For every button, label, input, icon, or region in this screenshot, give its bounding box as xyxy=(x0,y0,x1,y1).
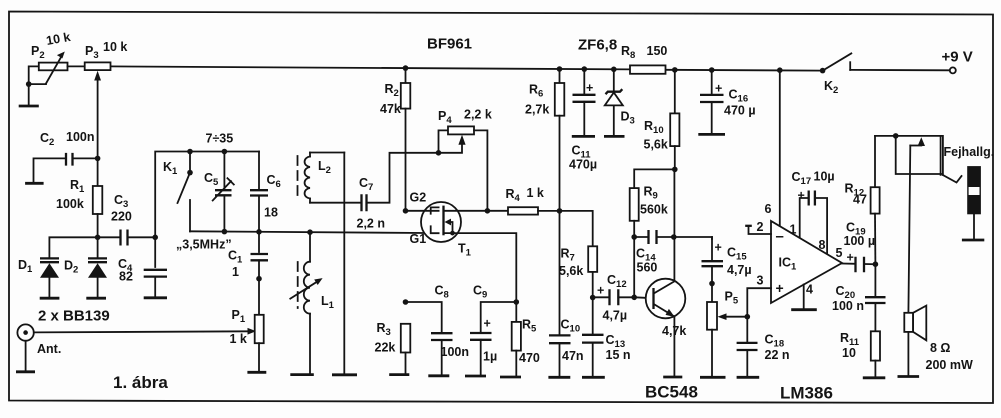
svg-text:1. ábra: 1. ábra xyxy=(113,373,168,392)
svg-text:6: 6 xyxy=(765,202,772,216)
switch K2 xyxy=(820,53,950,96)
ground (P1) xyxy=(247,371,266,374)
ground (emitter BC548) xyxy=(663,376,682,379)
ground (P5) xyxy=(700,376,726,379)
svg-text:470µ: 470µ xyxy=(569,158,597,172)
resistor R3 xyxy=(375,321,411,374)
svg-text:18: 18 xyxy=(264,206,278,220)
capacitor C17 xyxy=(790,170,835,253)
svg-text:1: 1 xyxy=(232,265,239,279)
capacitor C1 xyxy=(228,232,268,279)
node R9/base xyxy=(631,295,637,301)
node R10/R9/collector xyxy=(672,167,678,173)
ground (D1) xyxy=(40,297,60,300)
svg-text:2 x BB139: 2 x BB139 xyxy=(38,308,110,325)
wire collector node to C15 xyxy=(674,237,712,239)
trimmer capacitor C5 xyxy=(204,149,234,232)
node R4/R6/R7/C10 xyxy=(557,208,563,214)
svg-text:3: 3 xyxy=(757,274,764,288)
node bus-C6/C1 xyxy=(256,229,262,235)
capacitor C6 xyxy=(250,152,281,232)
wire oscillator bus to gate G1 xyxy=(190,231,424,233)
svg-text:+9 V: +9 V xyxy=(942,49,973,66)
svg-text:82: 82 xyxy=(119,270,133,284)
svg-text:+: + xyxy=(715,82,722,96)
label 3,5MHz xyxy=(176,238,232,252)
ground (speaker) xyxy=(898,375,920,378)
svg-text:10 k: 10 k xyxy=(103,40,127,54)
svg-text:2: 2 xyxy=(757,220,764,234)
svg-text:200 mW: 200 mW xyxy=(926,358,973,372)
svg-text:5,6k: 5,6k xyxy=(559,264,583,278)
svg-text:–: – xyxy=(776,228,784,245)
wire pin 4 ground xyxy=(804,283,813,309)
capacitor C4 xyxy=(118,237,167,296)
svg-text:5,6k: 5,6k xyxy=(644,138,668,152)
label LM386 xyxy=(780,384,833,403)
svg-text:470 µ: 470 µ xyxy=(724,104,756,118)
capacitor C16 xyxy=(700,70,756,133)
svg-text:100n: 100n xyxy=(66,130,95,144)
MOSFET T1 BF961 xyxy=(410,191,472,259)
svg-text:Ant.: Ant. xyxy=(37,342,61,356)
resistor R7 xyxy=(559,211,597,298)
svg-text:100n: 100n xyxy=(441,345,470,359)
svg-text:1: 1 xyxy=(790,223,797,237)
wire jack to speaker xyxy=(908,146,910,313)
svg-text:+: + xyxy=(586,81,593,95)
ground (C13) xyxy=(582,376,605,379)
svg-text:22 n: 22 n xyxy=(765,348,790,362)
varicap diode D2 xyxy=(64,237,107,296)
ground (C2) xyxy=(25,182,43,185)
resistor R5 xyxy=(512,302,540,376)
wire T1 drain to R4 xyxy=(444,210,488,212)
wire T1 source xyxy=(444,233,517,302)
ground (C10) xyxy=(548,376,570,379)
wire pin 2 input xyxy=(745,220,771,234)
label 1. ábra xyxy=(113,373,168,392)
node rail-R6 xyxy=(557,66,563,72)
ground (C4) xyxy=(144,296,167,299)
capacitor C9 xyxy=(470,284,516,376)
ground (C16) xyxy=(698,133,725,136)
svg-text:2,7k: 2,7k xyxy=(525,103,549,117)
label BC548 xyxy=(645,383,698,402)
svg-text:LM386: LM386 xyxy=(780,384,833,403)
node P5 wiper/C18/pin3 xyxy=(745,314,751,320)
svg-text:ZF6,8: ZF6,8 xyxy=(578,37,617,54)
wire pin 6 supply xyxy=(765,70,780,226)
resistor R10 xyxy=(644,70,680,169)
node C7/P4 wiper xyxy=(436,150,442,156)
ground (P2) xyxy=(19,105,39,108)
svg-text:G2: G2 xyxy=(410,191,427,205)
ground (R3) xyxy=(389,373,409,376)
node C14/collector/C15 xyxy=(671,234,677,240)
capacitor C3 xyxy=(95,193,155,246)
wire C3 node up to oscillator top bus xyxy=(155,152,259,238)
svg-text:4,7k: 4,7k xyxy=(662,324,686,338)
label ZF6,8 xyxy=(578,37,617,54)
svg-text:4,7µ: 4,7µ xyxy=(727,263,752,277)
resistor R1 xyxy=(56,158,102,237)
label 2 x BB139 xyxy=(38,308,110,325)
headphone jack Fejhallg. xyxy=(875,133,994,182)
switch K1 xyxy=(163,149,193,232)
svg-text:2,2 n: 2,2 n xyxy=(357,217,386,231)
headphone plug xyxy=(968,167,980,239)
resistor R11 xyxy=(840,331,880,376)
svg-text:+: + xyxy=(484,317,491,331)
svg-text:560: 560 xyxy=(637,261,658,275)
node source net xyxy=(514,299,520,305)
capacitor C15 xyxy=(702,237,752,284)
op-amp IC1 LM386 xyxy=(771,221,842,303)
ground (pin 4) xyxy=(791,308,817,311)
+9V terminal xyxy=(942,49,973,74)
node C15/P5 xyxy=(709,281,715,287)
resistor R4 xyxy=(487,186,559,215)
wire G2 xyxy=(406,210,439,212)
svg-text:„3,5MHz”: „3,5MHz” xyxy=(176,238,232,252)
ground (D3) xyxy=(604,135,625,138)
capacitor C8 xyxy=(406,284,470,375)
ground (D2) xyxy=(86,297,106,300)
ground (C11) xyxy=(572,135,595,138)
wire +9V rail left of R8 xyxy=(111,66,631,69)
svg-text:100k: 100k xyxy=(56,197,84,211)
node G2 net / C8 xyxy=(403,299,409,305)
svg-text:Fejhallg.: Fejhallg. xyxy=(944,145,995,159)
capacitor C2 xyxy=(34,130,101,182)
ground (R5) xyxy=(500,376,521,379)
capacitor C18 xyxy=(737,317,790,376)
node G2/R2 xyxy=(403,208,409,214)
svg-text:10: 10 xyxy=(842,346,856,360)
node rail-pin6 xyxy=(777,67,783,73)
node rail-D3 xyxy=(611,67,617,73)
ground (plug) xyxy=(962,239,984,242)
wire base xyxy=(634,296,647,299)
svg-text:5: 5 xyxy=(836,246,843,260)
capacitor C13 xyxy=(582,298,631,377)
node rail-R10 xyxy=(672,67,678,73)
svg-text:150: 150 xyxy=(647,44,668,58)
svg-text:1µ: 1µ xyxy=(483,350,497,364)
node rail-C16 xyxy=(709,67,715,73)
zener diode D3 xyxy=(605,69,635,135)
resistor R9 xyxy=(630,169,675,297)
ground (C8) xyxy=(428,374,449,377)
svg-text:470: 470 xyxy=(519,351,540,365)
capacitor C20 xyxy=(832,264,886,331)
wire L2 right side to ground xyxy=(343,153,345,374)
svg-text:8: 8 xyxy=(819,238,826,252)
resistor R6 xyxy=(525,69,564,211)
svg-text:G1: G1 xyxy=(410,232,427,246)
svg-text:220: 220 xyxy=(111,210,132,224)
capacitor C14 xyxy=(634,230,674,275)
node output xyxy=(873,261,879,267)
wire +9V rail right of R8 xyxy=(666,69,823,72)
svg-text:4,7µ: 4,7µ xyxy=(603,309,628,323)
node rail-R2 xyxy=(403,65,409,71)
svg-text:+: + xyxy=(597,284,604,298)
svg-text:7÷35: 7÷35 xyxy=(206,132,234,146)
svg-text:8 Ω: 8 Ω xyxy=(930,341,950,355)
svg-text:+: + xyxy=(847,251,854,265)
potentiometer P1 xyxy=(230,276,264,371)
ground (C18) xyxy=(737,376,760,379)
svg-text:2,2 k: 2,2 k xyxy=(464,108,492,122)
svg-text:100 µ: 100 µ xyxy=(844,234,876,248)
resistor R12 xyxy=(845,136,880,264)
inductor L2 xyxy=(298,153,345,203)
node rail-C11 xyxy=(582,66,588,72)
svg-text:560k: 560k xyxy=(640,203,668,217)
node R7/C12/C13 xyxy=(590,295,596,301)
ground (L1) xyxy=(290,373,314,376)
potentiometer P4 xyxy=(438,108,492,211)
svg-text:1 k: 1 k xyxy=(527,186,544,200)
label 7÷35 xyxy=(206,132,234,146)
wire collector column xyxy=(673,169,675,281)
svg-text:15 n: 15 n xyxy=(606,348,631,362)
label BF961 xyxy=(427,36,472,53)
potentiometer P3 xyxy=(85,40,128,158)
svg-text:47k: 47k xyxy=(380,102,401,116)
svg-text:1 k: 1 k xyxy=(230,332,247,346)
svg-text:BC548: BC548 xyxy=(645,383,698,402)
antenna connector xyxy=(17,324,61,370)
wire antenna to P1 wiper xyxy=(34,328,256,335)
svg-text:BF961: BF961 xyxy=(427,36,472,53)
ground (L2) xyxy=(332,373,357,376)
node drain/P4 xyxy=(485,208,491,214)
svg-text:4: 4 xyxy=(806,283,813,297)
ground (C9) xyxy=(465,375,486,378)
potentiometer P2 xyxy=(26,30,85,105)
svg-text:+: + xyxy=(776,280,784,296)
node R9/C14 xyxy=(631,234,637,240)
svg-text:10µ: 10µ xyxy=(814,170,835,184)
capacitor C12 xyxy=(593,273,635,323)
inductor L1 xyxy=(290,232,334,373)
svg-text:+: + xyxy=(715,241,722,255)
node C3-C4 xyxy=(152,235,158,241)
svg-text:47n: 47n xyxy=(562,349,584,363)
svg-text:100 n: 100 n xyxy=(832,299,864,313)
potentiometer P5 xyxy=(662,284,747,377)
node bus-C5 xyxy=(222,229,228,235)
resistor R2 xyxy=(380,68,410,211)
svg-text:47: 47 xyxy=(853,193,867,207)
svg-text:22k: 22k xyxy=(375,341,396,355)
capacitor C19 output xyxy=(836,221,876,273)
speaker xyxy=(904,306,973,375)
transistor Q1 BC548 xyxy=(646,279,686,376)
svg-text:+: + xyxy=(798,189,805,203)
node bus-L1 xyxy=(307,229,313,235)
ground (antenna) xyxy=(16,370,35,373)
capacitor C11 xyxy=(569,69,597,171)
varicap diode D1 xyxy=(18,237,98,296)
ground (R11) xyxy=(863,376,886,379)
wire pin 3 input xyxy=(747,274,771,317)
capacitor C7 xyxy=(310,153,436,231)
resistor R8 xyxy=(621,44,667,74)
capacitor C10 xyxy=(549,211,584,376)
